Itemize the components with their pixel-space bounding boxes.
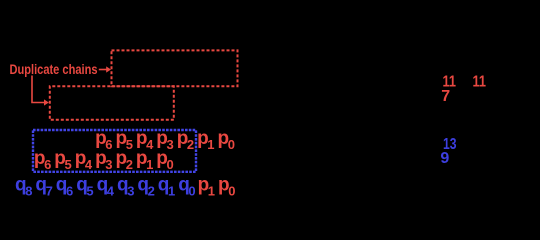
svg-text:q2: q2 bbox=[137, 175, 154, 199]
svg-text:Duplicate chains: Duplicate chains bbox=[10, 61, 98, 77]
svg-text:q5: q5 bbox=[76, 175, 93, 199]
box blue dashed bbox=[33, 130, 196, 172]
box duplicate chain lower (red dashed) bbox=[50, 86, 174, 120]
svg-text:p4: p4 bbox=[75, 148, 93, 172]
svg-text:p1: p1 bbox=[198, 175, 215, 199]
svg-text:p1: p1 bbox=[197, 128, 214, 152]
svg-text:7: 7 bbox=[441, 88, 450, 105]
svg-text:q6: q6 bbox=[56, 175, 73, 199]
svg-text:p0: p0 bbox=[218, 175, 235, 199]
svg-text:q0: q0 bbox=[178, 175, 195, 199]
wire arrow to lower box bbox=[32, 76, 45, 103]
svg-text:q7: q7 bbox=[35, 175, 52, 199]
svg-text:p2: p2 bbox=[177, 128, 194, 152]
box duplicate chain upper (red dashed) bbox=[112, 50, 238, 86]
svg-text:p0: p0 bbox=[218, 128, 235, 152]
svg-text:q8: q8 bbox=[15, 175, 32, 199]
svg-text:q1: q1 bbox=[158, 175, 175, 199]
svg-text:9: 9 bbox=[440, 150, 449, 167]
svg-text:11: 11 bbox=[473, 73, 487, 90]
svg-text:p5: p5 bbox=[54, 148, 71, 172]
wire arrow to upper box bbox=[99, 69, 108, 71]
svg-text:p6: p6 bbox=[34, 148, 51, 172]
svg-text:q4: q4 bbox=[97, 175, 115, 199]
svg-text:q3: q3 bbox=[117, 175, 134, 199]
